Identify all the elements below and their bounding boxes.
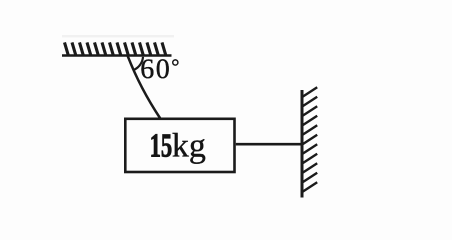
angle arc	[134, 57, 143, 70]
svg-text:60°: 60°	[140, 54, 181, 85]
svg-text:15: 15	[150, 128, 173, 165]
svg-text:kg: kg	[172, 128, 206, 165]
ceiling line	[62, 54, 172, 57]
rope to wall	[236, 143, 302, 146]
string at 60 degrees	[128, 56, 161, 119]
faint smudge artifact	[62, 35, 174, 37]
wall hatching	[302, 87, 317, 192]
ceiling hatching	[65, 42, 166, 55]
wall line	[301, 90, 304, 198]
block outline	[125, 119, 234, 172]
